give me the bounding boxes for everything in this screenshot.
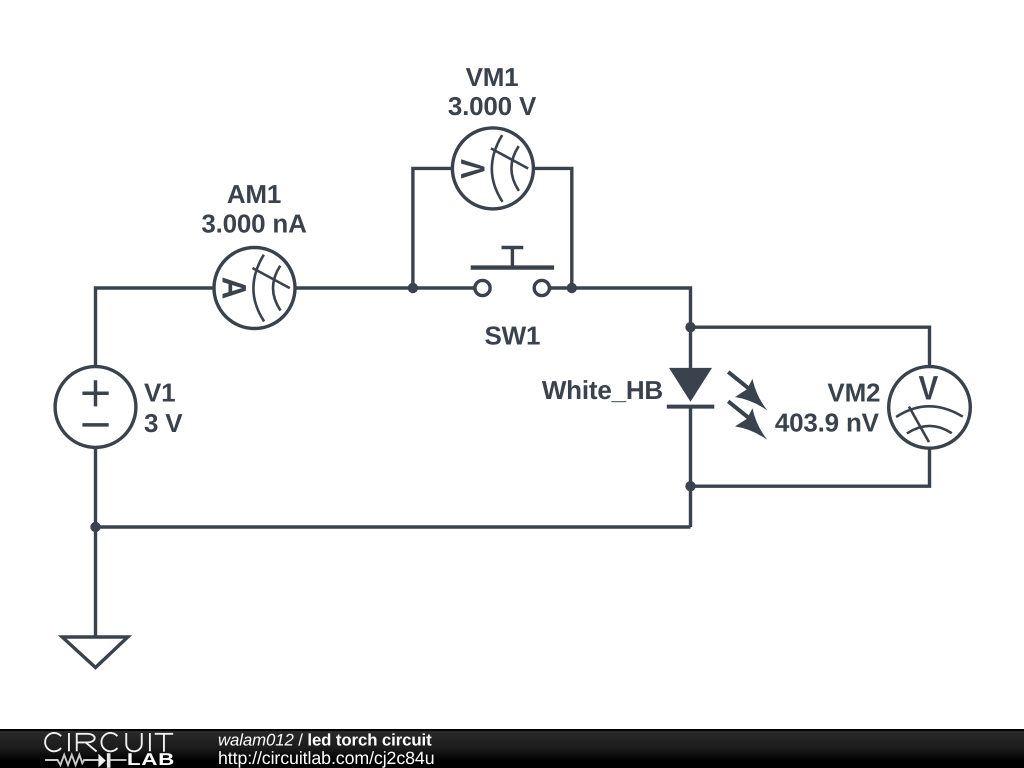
svg-text:3 V: 3 V (144, 408, 183, 438)
LED White_HB (667, 368, 768, 440)
svg-text:3.000 nA: 3.000 nA (201, 209, 307, 239)
junction V1-AM1 / VM1 left (408, 283, 418, 293)
voltage source V1 (55, 367, 136, 448)
svg-text:White_HB: White_HB (542, 375, 663, 405)
svg-text:V: V (919, 370, 939, 408)
svg-text:V: V (455, 159, 493, 179)
wire VM1 left branch (413, 168, 453, 288)
wire SW1 right terminal to corner (549, 288, 690, 368)
CircuitLab logo (45, 733, 173, 752)
wire AM1 to SW1 left terminal (295, 286, 475, 289)
wire VM2 top branch (691, 327, 930, 367)
svg-text:3.000 V: 3.000 V (448, 91, 537, 121)
wire V1 bottom stub (94, 447, 97, 527)
svg-text:SW1: SW1 (485, 320, 541, 350)
LED arrow 1 (728, 372, 750, 390)
wire bottom rail (96, 525, 691, 528)
wire VM1 right branch (533, 168, 571, 288)
svg-text:V1: V1 (144, 377, 175, 407)
wire VM2 bottom branch (691, 448, 930, 486)
svg-text:LAB: LAB (127, 750, 175, 768)
svg-text:VM1: VM1 (466, 62, 519, 92)
svg-text:http://circuitlab.com/cj2c84u: http://circuitlab.com/cj2c84u (218, 748, 435, 768)
junction V1 bottom / ground (90, 522, 100, 532)
svg-text:walam012 / led torch circuit: walam012 / led torch circuit (218, 731, 432, 750)
voltmeter VM2 (889, 367, 971, 449)
svg-text:VM2: VM2 (827, 378, 880, 408)
svg-text:AM1: AM1 (227, 179, 281, 209)
footer bar (0, 729, 1024, 768)
wire LED cathode down to bottom rail (689, 407, 692, 527)
wire to ground (94, 527, 97, 637)
ground (62, 637, 128, 668)
voltmeter VM1 (452, 128, 533, 209)
switch SW1 (471, 248, 554, 296)
junction LED cathode / VM2 bottom (685, 481, 695, 491)
junction SW1 / VM1 right (567, 283, 577, 293)
wire V1 top to AM1 (96, 288, 215, 367)
svg-text:403.9 nV: 403.9 nV (775, 408, 880, 438)
ammeter AM1 (214, 248, 295, 329)
svg-text:A: A (215, 277, 253, 300)
junction LED anode / VM2 top (685, 322, 695, 332)
LED arrow 2 (728, 401, 750, 419)
